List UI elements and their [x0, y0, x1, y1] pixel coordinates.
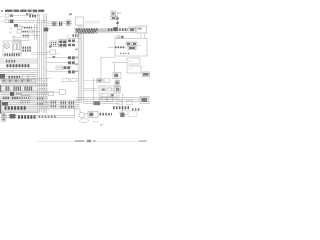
splice cluster S3: [59, 22, 63, 26]
fuse row 3: [12, 35, 40, 38]
wires bus to centre components: [47, 43, 68, 72]
splice band S18 bottom-centre: [100, 113, 113, 116]
wires block to bus: [31, 53, 48, 55]
fuse row 2: [9, 30, 40, 34]
solenoid coils: [13, 42, 22, 53]
splice band S6 right: [108, 28, 128, 30]
faint box bottom-right: [128, 111, 137, 117]
splice cluster S2: [53, 22, 57, 26]
wire from ECM box: [85, 22, 101, 24]
svg-text:hrn rly: hrn rly: [93, 120, 100, 123]
thermo box right 2: [127, 66, 141, 73]
dark cluster under module: [94, 101, 101, 105]
relay box bottom-right: [140, 97, 149, 104]
junction dots on left bus: [42, 21, 48, 23]
bottom bus right (4 wires): [76, 98, 149, 104]
splice row S9: [9, 76, 21, 79]
left harness bus (6 wires): [38, 14, 47, 114]
tap T2: [75, 56, 78, 58]
tap T4: [75, 70, 78, 72]
diode pair D1: [68, 40, 79, 44]
extra mesh lines: [0, 80, 48, 92]
svg-text:sensor: sensor: [14, 38, 21, 41]
title: CIRCUIT WIRING DIAGRAM (DIESEL ENGINE): [1, 10, 44, 12]
connector band C05 bottom-right (dark): [113, 106, 130, 109]
connector band C07 (dark, bottom-left): [5, 106, 27, 110]
main harness band wires: [44, 29, 142, 39]
switch box SW0: [50, 50, 60, 55]
harness band shading: [75, 29, 113, 34]
tick marks: [20, 102, 30, 104]
terminal box T5: [21, 96, 30, 101]
wire drop from cluster: [116, 15, 118, 29]
control module U2: [99, 86, 119, 99]
riser to bus: [74, 109, 76, 118]
junction mark on branch: [49, 46, 55, 58]
wire rows y97: [0, 97, 48, 99]
footer rule: [37, 140, 148, 142]
splice band S4 (dark): [76, 28, 98, 30]
page edge left upper: [0, 85, 1, 92]
junction block J1b: [14, 24, 24, 28]
bottom row wires: [2, 116, 75, 118]
diode pair D2: [68, 44, 75, 46]
junction J1: [10, 20, 14, 24]
wire to thermo 1: [112, 63, 127, 73]
wire label text row: [8, 70, 14, 72]
junction box J8: [49, 92, 54, 96]
pin labels centre: [67, 36, 70, 38]
riser to horn: [79, 109, 81, 113]
connector pair P4: [68, 70, 75, 73]
splice row S7 below band: [73, 34, 81, 37]
connector box row above band: [117, 101, 133, 105]
connector row small boxes: [2, 79, 36, 82]
connector band C03 (dark): [7, 64, 31, 67]
terminal strip under motors: [5, 53, 21, 55]
ECM connector box top-centre: [75, 17, 83, 25]
fuse box F1: [33, 13, 39, 16]
junction block J7: [10, 114, 16, 119]
page ref tags: [26, 13, 31, 15]
connector band C06 lighter: [132, 108, 140, 111]
junction J2 on band: [44, 28, 48, 32]
splice cluster S10: [51, 102, 57, 106]
switch box SW2: [60, 90, 66, 95]
wire rows top-left: [9, 21, 41, 23]
svg-text:gnd rly: gnd rly: [8, 70, 14, 72]
splice wires centre-top: [47, 22, 72, 26]
connector boxes right-bottom: [101, 97, 113, 102]
wire rows y111: [0, 111, 40, 113]
switch box SW1: [56, 66, 63, 69]
splice cluster S12: [69, 103, 76, 107]
relay centre R2: [59, 40, 67, 48]
wire module feed: [84, 80, 97, 82]
inline connector on wire: [115, 81, 120, 86]
harness bundle shading: [1, 78, 80, 113]
branch from bus to module: [84, 89, 97, 91]
connector pair P1: [68, 56, 79, 60]
splice cluster S14: [14, 86, 22, 91]
connector C09 on dropped wire: [120, 113, 124, 117]
wire rows upper-bottom-left: [0, 84, 48, 86]
splice marks at bus left end: [37, 99, 44, 105]
splice cluster S11: [61, 103, 67, 107]
connector cluster top-right: [110, 10, 121, 20]
wire down left of module: [93, 78, 95, 101]
splice band S5 (dark): [77, 31, 96, 33]
sensor column right: [113, 73, 121, 79]
relay box K1: [129, 27, 136, 33]
label boxes centre: [62, 79, 77, 82]
tap T1 on centre bus: [75, 48, 78, 50]
junction dark J6: [2, 102, 8, 106]
label text bottom-centre: [93, 120, 100, 123]
connector block right of motors: [23, 48, 32, 51]
wire to SW2: [47, 92, 60, 94]
wire rows lower-left: [0, 69, 48, 79]
splice row S1: [30, 15, 38, 18]
ground block G1: [0, 74, 5, 79]
label text left of boxes: [45, 78, 53, 80]
connector pair P3: [64, 66, 71, 69]
junction dots at bus grid: [38, 85, 48, 93]
L-wire to AC unit: [101, 57, 115, 80]
pigtail component right: [114, 36, 124, 39]
splice band lighter: [39, 116, 57, 118]
label B-7: [100, 124, 104, 127]
wire rows below motor box: [0, 59, 38, 63]
junction block J5: [10, 92, 22, 96]
splice row S16: [3, 97, 10, 99]
connector C01 top-left: [1, 14, 14, 18]
centre harness bus (4 wires): [78, 25, 83, 103]
relay box K2: [137, 26, 147, 33]
connector stack bottom-left: [2, 114, 7, 122]
page ref tag: [69, 14, 72, 16]
wire down from sensor: [116, 79, 118, 93]
wire down to bottom bus right: [121, 93, 123, 113]
splice row S17: [12, 97, 20, 99]
wire rows extra left: [0, 81, 48, 91]
relay contacts inside AC unit: [126, 42, 142, 50]
tap T3: [75, 63, 78, 65]
svg-text:B-7: B-7: [100, 124, 104, 127]
page edge left lower: [0, 100, 1, 114]
wire into AC unit: [108, 46, 126, 48]
splice cluster S15: [25, 86, 34, 91]
thermo box right 1: [127, 58, 140, 64]
junction block J4: [41, 102, 48, 107]
splice cluster S13: [6, 86, 11, 91]
svg-text:sw: sw: [57, 53, 60, 55]
drop wire K2 to AC unit: [141, 33, 145, 39]
motor M1 in cluster box: [3, 41, 21, 56]
connector boxes lower-left: [23, 75, 35, 80]
connector C01b: [1, 19, 9, 23]
resistor box right: [142, 72, 150, 77]
vertical risers top-left: [35, 24, 37, 40]
grommet arc: [119, 111, 128, 115]
connector pair P2: [68, 61, 79, 65]
splice cluster S8: [6, 60, 16, 63]
relay centre R1: [50, 41, 57, 47]
compressor box bottom: [88, 111, 98, 117]
horn H1: [79, 113, 88, 118]
footer text marks: [75, 140, 146, 142]
svg-text:cond fan: cond fan: [45, 78, 53, 80]
AC unit box right: [115, 39, 147, 57]
terminal marks bottom of AC unit: [120, 52, 130, 54]
pressure switch: [115, 87, 121, 93]
module connector boxes top: [97, 79, 111, 82]
connector band C08 (dark): [18, 115, 36, 119]
bottom bus left (5 wires): [2, 101, 80, 109]
wire from C01: [13, 15, 29, 17]
connector C02 centre-top: [66, 20, 70, 26]
grommet oval bottom: [79, 119, 88, 123]
fuse row 1: [9, 26, 38, 30]
label box L0: [13, 38, 29, 42]
wire rows mid-bottom-left: [0, 93, 48, 95]
junction J3: [113, 27, 117, 31]
